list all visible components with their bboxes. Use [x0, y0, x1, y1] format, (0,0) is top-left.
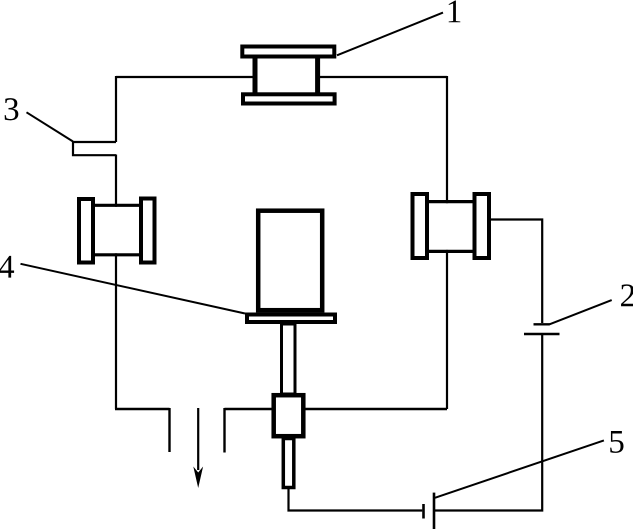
pump port right stub: [223, 408, 225, 453]
leader line to label 4: [21, 264, 246, 314]
label 3: [5, 98, 19, 120]
right port outer flange bar: [475, 194, 490, 258]
top port lower flange bar: [243, 94, 335, 103]
electrode cylinder: [258, 211, 322, 311]
battery short plate: [422, 504, 425, 519]
capacitor top plate (item 2): [534, 323, 550, 325]
wire from right port to capacitor: [491, 220, 542, 324]
left port inner flange bar: [141, 199, 155, 263]
chamber top wall: [116, 76, 447, 78]
battery long plate (item 5): [433, 493, 436, 529]
left port middle box: [93, 205, 141, 255]
electrode pedestal plate (item 4): [247, 315, 335, 323]
label 5: [610, 431, 623, 453]
gas inlet stub (item 3): [73, 142, 116, 155]
lower support stem: [283, 439, 294, 488]
capacitor bottom plate: [524, 333, 560, 335]
chamber left wall lower segment: [115, 155, 117, 410]
chamber bottom wall left segment: [115, 408, 170, 410]
right port inner flange bar: [413, 194, 428, 258]
label 2: [621, 284, 633, 306]
leader line to label 2: [550, 300, 612, 324]
top port upper flange bar (item 1): [242, 47, 334, 57]
right port middle box: [427, 202, 475, 252]
chamber right wall: [446, 76, 448, 409]
feedthrough block: [274, 395, 304, 436]
pump-out arrowhead: [193, 467, 203, 489]
wire from capacitor down to battery positive plate: [435, 335, 542, 511]
upper support stem: [282, 324, 296, 394]
chamber left wall upper segment: [115, 76, 117, 142]
top port middle box: [253, 58, 321, 93]
chamber bottom wall right segment: [225, 408, 448, 410]
leader line to label 3: [27, 112, 74, 141]
wire from lower stem to battery short plate: [289, 488, 423, 511]
pump port left stub: [168, 408, 170, 452]
label 4: [0, 256, 14, 278]
pump-out arrow shaft: [197, 408, 199, 470]
leader line to label 1: [337, 13, 443, 56]
left port outer flange bar: [79, 199, 93, 263]
leader line to label 5: [435, 440, 604, 497]
label 1: [449, 1, 461, 23]
